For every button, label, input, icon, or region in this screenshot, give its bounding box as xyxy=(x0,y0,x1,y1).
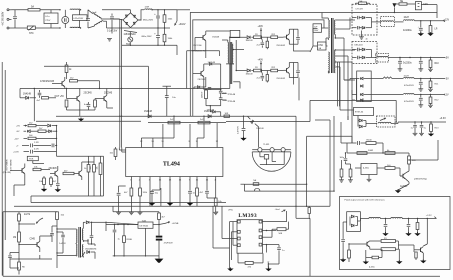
transistor Q3 A733 xyxy=(40,77,65,89)
svg-text:-5V: -5V xyxy=(445,77,449,80)
wire aux bottom xyxy=(206,105,221,112)
resistor R snubber NE xyxy=(356,1,370,5)
resistor R 4k7 pin15 xyxy=(196,188,204,206)
capacitor C note b xyxy=(405,219,411,237)
capacitor C 10u xyxy=(150,188,170,206)
svg-text:+5VSB: +5VSB xyxy=(172,223,179,225)
transistor Q aux 2SC945 xyxy=(193,64,206,90)
transistor Q note b xyxy=(414,245,423,258)
transformer T2 secondary xyxy=(232,44,233,65)
capacitor C3 0.1uF 2kV xyxy=(107,14,118,34)
node TPW test point b xyxy=(222,100,236,103)
ground xyxy=(240,137,246,141)
diode D sb aux xyxy=(194,77,211,89)
resistor R note 1 xyxy=(381,238,395,243)
inductor L note b xyxy=(391,217,437,219)
wire TL494 bottom pins xyxy=(130,177,216,185)
transformer T1 secondary xyxy=(334,20,336,73)
node +5VSB xyxy=(158,221,179,225)
capacitor C 1uF 50V xyxy=(238,116,246,138)
wire bus top B xyxy=(193,20,324,116)
transformer T2 core xyxy=(230,42,231,84)
wire to bridge top xyxy=(110,18,123,21)
capacitor CY1 xyxy=(62,10,69,28)
node +12V xyxy=(443,19,450,22)
svg-text:10R: 10R xyxy=(225,113,229,115)
resistor R xyxy=(42,97,57,99)
capacitor C7 1uF coupling box xyxy=(313,24,328,33)
wire bridge to +rail xyxy=(102,10,144,20)
transistor Q5 2SC945 xyxy=(95,89,113,109)
ground xyxy=(149,202,155,206)
diode D aux 1N4148 xyxy=(204,62,221,91)
resistor R note b xyxy=(414,250,417,260)
wire reg top xyxy=(347,143,407,154)
wire bottom rail down xyxy=(177,10,190,55)
ground xyxy=(227,268,233,272)
capacitor C note input xyxy=(340,222,347,262)
diode D12 dual schottky CTY-2R +12V xyxy=(352,4,377,35)
svg-text:2SC1306: 2SC1306 xyxy=(193,45,202,47)
svg-text:250V: 250V xyxy=(314,30,319,32)
diode D5a xyxy=(352,48,372,58)
capacitor C23 470u xyxy=(404,79,423,92)
svg-text:500R: 500R xyxy=(368,150,374,152)
wire to T3 xyxy=(40,229,74,255)
diode D7a xyxy=(358,116,377,128)
wire fan feed xyxy=(392,3,399,13)
transistor Q6 2SC945 xyxy=(49,166,58,180)
capacitor C sense xyxy=(31,142,51,147)
svg-text:NTC: NTC xyxy=(29,33,34,35)
transistor Q8 C945 xyxy=(18,236,40,252)
capacitor C pin16 xyxy=(205,188,216,198)
node -5V sense xyxy=(16,131,26,133)
svg-text:680u,250V: 680u,250V xyxy=(143,20,154,22)
svg-text:115/230VAC: 115/230VAC xyxy=(124,33,137,36)
svg-text:+40V: +40V xyxy=(258,26,264,28)
svg-text:1N4148: 1N4148 xyxy=(23,94,32,96)
svg-text:470uF16V: 470uF16V xyxy=(404,85,414,87)
component U2 TL431 outline xyxy=(252,144,291,171)
capacitor C sb1 xyxy=(113,224,120,256)
node +310V xyxy=(174,10,185,26)
diode D 1N4148 xyxy=(229,36,253,42)
wire T1 tap pair xyxy=(338,62,340,106)
capacitor C2 680u 250V xyxy=(142,28,160,45)
resistor R load +5V xyxy=(428,58,439,72)
svg-text:2SC945: 2SC945 xyxy=(84,93,93,95)
ground xyxy=(187,202,193,206)
capacitor snubber xyxy=(296,34,300,43)
capacitor C aux a xyxy=(206,89,227,98)
resistor R 220k xyxy=(56,212,65,220)
svg-text:R100: R100 xyxy=(367,140,373,142)
wire sb bottom xyxy=(113,212,219,257)
ground xyxy=(138,212,143,214)
ground xyxy=(418,32,424,36)
svg-text:(PS): (PS) xyxy=(229,209,233,211)
transistor Q note a xyxy=(352,241,381,249)
svg-text:1N4148(6V8): 1N4148(6V8) xyxy=(85,248,97,250)
svg-text:1N4148: 1N4148 xyxy=(246,40,254,42)
node OUT+5V xyxy=(55,96,65,98)
svg-text:TDK: TDK xyxy=(29,159,34,161)
node Vref xyxy=(275,208,287,221)
inductor L note a xyxy=(369,217,391,219)
capacitor C20 3x1000u xyxy=(403,21,423,35)
inductor L7 +5V toroid xyxy=(376,54,401,63)
wire TL494 top pins xyxy=(140,123,219,148)
connector J1 AC inlet xyxy=(2,9,12,29)
diode D5 dual schottky D83-004 +5V xyxy=(352,42,377,64)
capacitor C26 1u xyxy=(411,122,418,136)
svg-text:C945: C945 xyxy=(30,239,36,241)
transformer T3 core xyxy=(79,227,81,258)
resistor 2R2 xyxy=(271,34,284,39)
node +40V supply xyxy=(258,59,264,71)
wire border left outer xyxy=(1,62,3,276)
transformer T3 secondary xyxy=(81,222,84,257)
thermistor NTC1 xyxy=(25,26,35,35)
wire lm393 right link xyxy=(295,206,310,277)
resistor R 5k6b xyxy=(90,162,95,176)
wire long mid bus xyxy=(14,196,330,206)
svg-text:5A: 5A xyxy=(31,6,34,9)
transistor Q standby 2SC1306 xyxy=(195,31,219,58)
svg-text:100n: 100n xyxy=(340,157,345,159)
capacitor CX2 X-class box xyxy=(44,10,58,28)
wire note right xyxy=(395,241,414,261)
wire border left inner xyxy=(4,70,6,240)
resistor R13 xyxy=(428,122,439,136)
resistor R startup 2x27k xyxy=(18,214,31,232)
capacitor C 1u xyxy=(266,244,285,258)
wire prot top xyxy=(57,156,104,196)
diode D sense -5 xyxy=(27,130,38,133)
node +3.3V xyxy=(440,117,447,120)
node +5V xyxy=(445,56,450,59)
transformer T1 core xyxy=(332,18,334,73)
wire opto row b xyxy=(244,184,334,191)
resistor R 2k2 xyxy=(70,78,100,89)
svg-text:+310V: +310V xyxy=(179,23,186,26)
resistor R note load xyxy=(414,219,420,237)
svg-text:5k6: 5k6 xyxy=(90,166,92,169)
capacitor C e xyxy=(8,253,19,269)
wire AC live top xyxy=(12,9,29,11)
capacitor 2u2 xyxy=(257,71,265,82)
svg-text:1N4148: 1N4148 xyxy=(212,36,219,38)
wire collector rail xyxy=(289,29,298,51)
node TPW test point a xyxy=(222,94,236,97)
resistor R NE opto xyxy=(253,180,259,185)
node +3.2V note xyxy=(426,215,437,218)
ground xyxy=(395,189,401,193)
svg-text:TPW-4B: TPW-4B xyxy=(227,101,235,103)
wire top rail to caps xyxy=(151,9,177,10)
svg-text:2SC945: 2SC945 xyxy=(104,93,113,95)
wire horizontal y116 xyxy=(56,116,296,117)
wire LM393 left pins xyxy=(222,206,240,268)
wire sense collect xyxy=(56,126,58,157)
svg-text:47uF/50V: 47uF/50V xyxy=(164,242,174,244)
resistor R 2k7 xyxy=(38,128,57,132)
svg-text:470uF16V: 470uF16V xyxy=(404,101,414,103)
component TDK box xyxy=(27,156,44,163)
wire sb out xyxy=(105,222,138,231)
ground xyxy=(420,258,426,263)
resistor R base q4 xyxy=(65,89,68,111)
resistor R load +12V xyxy=(429,21,438,35)
resistor R 2x2 b xyxy=(198,116,210,124)
resistor R 10k b xyxy=(39,176,45,187)
ground xyxy=(155,259,164,263)
capacitor C snub xyxy=(50,226,57,242)
transistor Q7 xyxy=(76,162,82,180)
capacitor C 4u7 xyxy=(37,90,42,102)
resistor base-emitter xyxy=(266,37,268,49)
svg-text:2SC945: 2SC945 xyxy=(198,79,207,81)
wire emitter xyxy=(289,43,298,44)
inductor L1 common-mode choke top xyxy=(70,9,81,11)
resistor KSC box xyxy=(310,29,328,53)
wire PS-ON drop xyxy=(34,88,35,121)
wire standby bottoms xyxy=(67,108,114,110)
wire box outline standby xyxy=(44,66,148,116)
regulator U4 78L05 xyxy=(106,220,159,228)
transistor Q 2SC4042 xyxy=(276,29,289,47)
diode D sense +5 xyxy=(48,124,57,127)
capacitor C t xyxy=(56,180,60,189)
svg-text:10uH: 10uH xyxy=(404,17,410,19)
resistor R 500R xyxy=(357,150,374,154)
svg-text:5V POWER: 5V POWER xyxy=(7,159,9,170)
svg-text:TPW-4B: TPW-4B xyxy=(227,94,235,96)
capacitor C near bus xyxy=(163,86,177,116)
node -12V sense xyxy=(14,138,27,140)
svg-text:0.1uF 2kV: 0.1uF 2kV xyxy=(107,31,118,33)
svg-text:LR: LR xyxy=(435,29,438,31)
svg-text:+5V: +5V xyxy=(16,126,20,128)
wire T2 taps xyxy=(226,50,244,89)
node +5V sense xyxy=(16,124,27,127)
wire bottom pin bus xyxy=(131,185,215,207)
svg-text:1N4148: 1N4148 xyxy=(144,111,153,113)
wire standby primary v xyxy=(56,220,57,269)
node startup xyxy=(18,218,43,225)
node 2SC1306 labels xyxy=(192,45,206,53)
wire staircase xyxy=(226,100,397,122)
resistor R2 150k xyxy=(163,28,173,45)
connector FAN xyxy=(415,2,437,13)
svg-text:275V: 275V xyxy=(45,20,51,22)
resistor R30B xyxy=(123,224,133,256)
svg-text:Fixed output version with 3.3V: Fixed output version with 3.3V reference… xyxy=(345,199,386,202)
capacitor C note a xyxy=(382,219,388,237)
ground xyxy=(107,39,112,41)
wire sb switcher xyxy=(187,51,220,89)
resistor R 4k7 pin xyxy=(124,188,133,212)
svg-text:1u: 1u xyxy=(118,238,120,240)
svg-text:2x27k: 2x27k xyxy=(24,214,31,216)
diode D aux2 1N4148 xyxy=(207,110,221,117)
resistor R 4k7 xyxy=(50,176,57,187)
svg-text:1N4148: 1N4148 xyxy=(246,73,254,75)
svg-text:+12V: +12V xyxy=(444,19,450,22)
svg-text:3x1000u: 3x1000u xyxy=(403,30,412,32)
component U2 TL431 inner xyxy=(260,152,284,165)
node +40V supply xyxy=(258,26,264,38)
svg-text:4.5R: 4.5R xyxy=(34,148,39,150)
resistor R 2x2 a xyxy=(168,116,180,124)
comparator U3 LM393 xyxy=(237,213,263,253)
svg-text:(PS-ON): (PS-ON) xyxy=(3,172,11,174)
capacitor C21 2200u xyxy=(398,58,403,72)
resistor 2R xyxy=(251,34,270,39)
capacitor C pin2 xyxy=(117,186,148,212)
wire bottom rail xyxy=(122,45,177,46)
wire LM393 right pins xyxy=(259,220,287,252)
wire T1 secondary taps xyxy=(335,18,355,121)
resistor 2R2 xyxy=(271,67,284,72)
resistor R startup xyxy=(65,62,72,79)
wire fb pair right xyxy=(296,116,335,206)
capacitor C1 680u 250V xyxy=(143,10,160,28)
switch SW1 115/230V xyxy=(124,31,138,37)
resistor R 220 xyxy=(407,153,416,171)
wire taps to -box xyxy=(344,79,357,95)
wire reg right xyxy=(408,140,438,161)
resistor R note base xyxy=(348,243,352,262)
capacitor C sense2 xyxy=(52,144,57,148)
ground xyxy=(213,212,218,214)
svg-text:1M: 1M xyxy=(13,237,16,239)
component TL431 box 3v3 xyxy=(355,164,385,182)
svg-text:TL431: TL431 xyxy=(263,144,270,146)
ground xyxy=(265,258,279,271)
svg-text:-12V: -12V xyxy=(444,93,449,96)
resistor R note 2 xyxy=(381,248,395,251)
svg-text:(L431): (L431) xyxy=(363,168,369,170)
component small reg note xyxy=(366,249,382,268)
resistor base-emitter xyxy=(266,71,268,83)
transformer T3 standby primary xyxy=(74,229,77,256)
capacitor CX1 xyxy=(13,10,17,28)
inductor L8 -5V xyxy=(368,77,403,79)
svg-text:2SC945: 2SC945 xyxy=(49,168,58,170)
svg-text:+40V: +40V xyxy=(258,59,264,61)
resistor R b xyxy=(18,249,26,275)
diode D12b xyxy=(352,22,381,30)
svg-text:1k/50V: 1k/50V xyxy=(202,91,204,98)
resistor R load -12V xyxy=(428,95,439,108)
wire bus standby xyxy=(20,88,226,89)
svg-text:+5V: +5V xyxy=(445,56,450,59)
diode D6 dual rectifier -12V/-5V box xyxy=(357,71,372,102)
diode D TL431 feed xyxy=(248,116,265,147)
resistor R fan xyxy=(399,1,415,5)
capacitor C T3 out xyxy=(90,222,94,245)
svg-text:LM 78L05: LM 78L05 xyxy=(140,226,149,228)
node -5V xyxy=(445,77,449,80)
diode D 1N4148 b xyxy=(204,111,213,118)
svg-text:(L431): (L431) xyxy=(369,266,375,268)
wire bottom rail left xyxy=(3,212,310,276)
capacitor C24 470u xyxy=(404,95,423,108)
resistor R 10k c xyxy=(97,156,102,196)
varistor VR1 xyxy=(126,32,133,46)
svg-text:A733/2SC945: A733/2SC945 xyxy=(40,80,55,83)
svg-text:+5V: +5V xyxy=(215,212,219,214)
inductor L2a xyxy=(88,10,110,19)
resistor R load -5V xyxy=(428,79,439,92)
ground xyxy=(427,32,433,36)
wire stage links xyxy=(226,37,310,100)
wire AC neutral bottom xyxy=(12,27,26,29)
ground xyxy=(55,188,61,192)
svg-text:TL494: TL494 xyxy=(163,161,180,167)
resistor R 2k2 sense xyxy=(28,122,47,126)
diode D12a xyxy=(352,16,372,22)
diode D7 dual schottky +3.3V box xyxy=(354,108,374,116)
ground xyxy=(116,212,121,214)
node -12V xyxy=(444,93,449,96)
capacitor CX3 X-class box xyxy=(73,10,88,28)
svg-text:+5V SENSE: +5V SENSE xyxy=(11,159,13,171)
transformer T1 primary xyxy=(326,18,329,73)
vertical label xyxy=(268,260,270,268)
wire collector rail xyxy=(289,63,298,85)
wire prot bottom xyxy=(14,176,104,196)
svg-text:~AC 90-260V: ~AC 90-260V xyxy=(2,11,5,26)
wire fuse to filter xyxy=(40,9,61,10)
svg-text:KSC: KSC xyxy=(319,45,324,47)
svg-text:1.3R: 1.3R xyxy=(34,142,39,144)
capacitor 2u2 xyxy=(257,37,265,48)
svg-text:2SC4042: 2SC4042 xyxy=(276,78,286,80)
capacitor C fb xyxy=(341,141,366,145)
transistor Q4 2SC945 xyxy=(67,89,93,106)
resistor R 1k xyxy=(84,162,90,176)
svg-text:LM393: LM393 xyxy=(238,213,257,219)
svg-text:ETST-34: ETST-34 xyxy=(355,112,364,114)
capacitor C 47uF elco xyxy=(156,225,173,259)
capacitor C 100n xyxy=(340,152,348,164)
wire bus top A xyxy=(190,13,437,117)
ground xyxy=(363,258,369,265)
inductor L9 -5V xyxy=(404,75,446,79)
wire emitter xyxy=(289,77,298,78)
wire opto row a xyxy=(241,184,308,185)
resistor R divider b xyxy=(346,164,353,182)
inductor L1 common-mode choke bottom xyxy=(70,27,81,29)
svg-text:2SC4042: 2SC4042 xyxy=(276,45,286,47)
svg-text:1N4148: 1N4148 xyxy=(204,111,213,113)
resistor R 500R xyxy=(272,222,289,238)
svg-text:+3.2V: +3.2V xyxy=(426,215,432,217)
wire horizontal y122 xyxy=(36,121,226,122)
resistor R50B xyxy=(13,232,20,249)
diode D dual schottky note xyxy=(347,212,369,232)
svg-text:10uH: 10uH xyxy=(404,75,410,77)
bridge rectifier BR1 xyxy=(123,13,138,28)
node +3.3V sense xyxy=(13,152,29,154)
diode D 1N4148 xyxy=(236,69,254,75)
capacitor C 1u50 xyxy=(57,232,66,253)
inductor L5 +12V in toroid box xyxy=(381,17,404,27)
resistor R right col xyxy=(308,206,310,218)
